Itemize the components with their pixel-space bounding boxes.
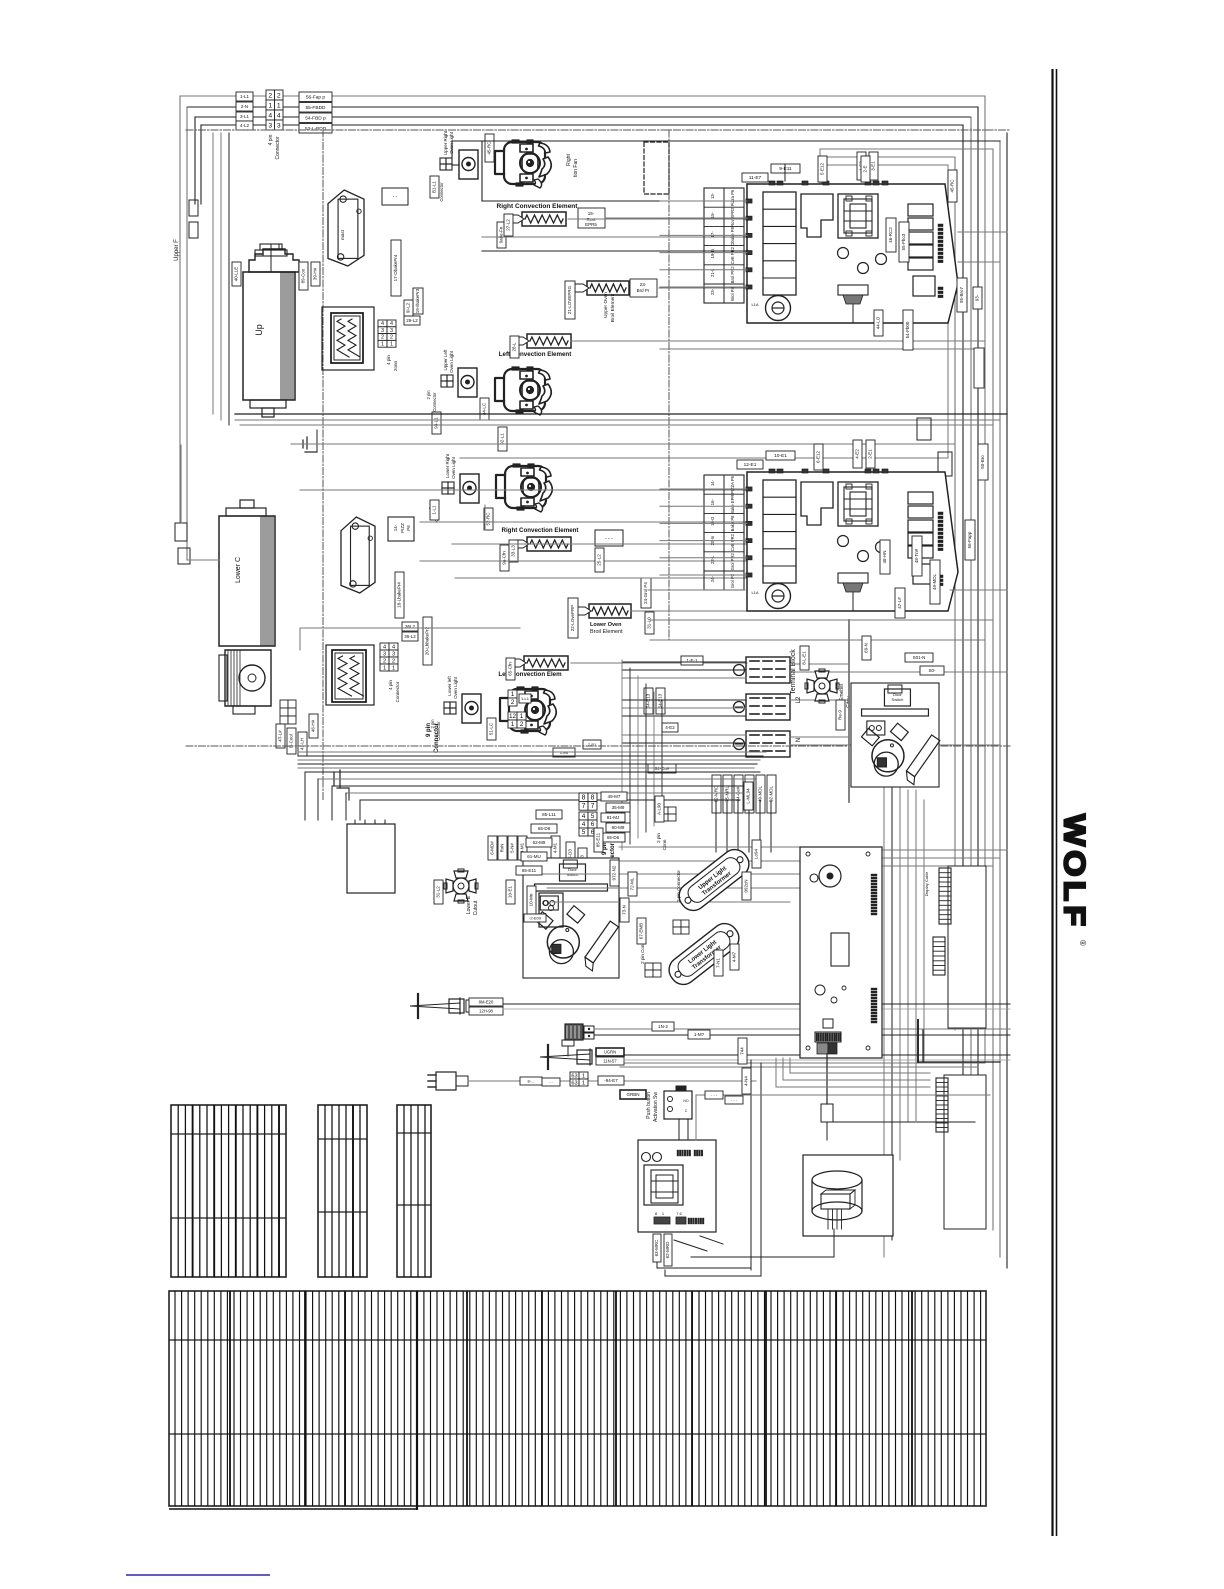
svg-text:A-L90: A-L90 (657, 803, 662, 816)
svg-text:Activation Sw: Activation Sw (653, 1092, 659, 1122)
svg-text:28-L: 28-L (512, 342, 517, 352)
svg-text:29-L2: 29-L2 (406, 318, 418, 323)
svg-text:2: 2 (381, 335, 384, 341)
svg-text:4-M7: 4-M7 (732, 951, 737, 962)
small dashed box (382, 188, 408, 205)
svg-text:072-N2: 072-N2 (612, 865, 617, 880)
svg-text:2 pin: 2 pin (426, 390, 431, 400)
svg-text:PIZZA P6: PIZZA P6 (730, 475, 735, 494)
svg-text:1-L1: 1-L1 (521, 696, 530, 701)
svg-text:Cutout: Cutout (473, 900, 479, 915)
svg-text:Connector: Connector (432, 392, 437, 412)
dash box top right (644, 142, 669, 194)
ground symbol A (306, 437, 308, 449)
svg-text:4-L2: 4-L2 (240, 123, 250, 128)
lower oven right fan (496, 464, 552, 512)
svg-text:2: 2 (268, 93, 272, 100)
svg-text:Connector: Connector (439, 182, 444, 202)
svg-text:65-D6: 65-D6 (607, 835, 620, 840)
blue underline bottom-left (126, 1574, 270, 1576)
oven probe lower (540, 1054, 590, 1060)
vertical bundle mid (621, 660, 623, 850)
svg-text:15-: 15- (710, 212, 715, 219)
svg-text:1: 1 (277, 103, 281, 110)
svg-text:67-EMB: 67-EMB (639, 923, 644, 939)
svg-text:7 6: 7 6 (676, 1211, 682, 1216)
svg-text:Switch: Switch (892, 697, 904, 702)
svg-text:3: 3 (392, 651, 395, 657)
svg-text:10-E1: 10-E1 (774, 453, 787, 459)
svg-text:35-M9: 35-M9 (612, 805, 625, 810)
svg-text:WOLF: WOLF (1058, 814, 1092, 930)
svg-text:46-RC2: 46-RC2 (888, 227, 893, 243)
svg-text:47-L#: 47-L# (897, 597, 902, 609)
svg-text:5: 5 (582, 829, 586, 836)
svg-text:4 pin: 4 pin (268, 134, 274, 145)
svg-text:46-H#: 46-H# (311, 719, 316, 732)
svg-text:CvE PR2: CvE PR2 (730, 533, 735, 551)
svg-text:Lower Right: Lower Right (445, 453, 450, 478)
svg-text:85-L11: 85-L11 (542, 812, 556, 817)
svg-text:Push button: Push button (646, 1092, 652, 1119)
svg-text:49-M7: 49-M7 (608, 794, 621, 799)
svg-text:3: 3 (381, 328, 384, 334)
svg-text:4 pin: 4 pin (386, 355, 391, 365)
board to bus wires (882, 849, 1007, 851)
svg-text:N: N (796, 738, 802, 742)
svg-text:2: 2 (383, 658, 386, 664)
svg-text:50-Bro: 50-Bro (980, 455, 985, 469)
wiring run table (bottom) (169, 1291, 986, 1506)
svg-text:6-D3: 6-D3 (568, 849, 573, 859)
svg-text:9 pin: 9 pin (426, 723, 432, 737)
svg-text:RvN: RvN (500, 844, 505, 853)
upper left oven light (458, 368, 477, 397)
wire color table 1 (171, 1105, 286, 1277)
svg-text:65-D8: 65-D8 (538, 826, 551, 831)
wire top bus (180, 95, 985, 97)
svg-text:4: 4 (381, 321, 384, 327)
svg-text:6-E12: 6-E12 (816, 451, 821, 464)
svg-text:4: 4 (383, 644, 386, 650)
J-box under board (826, 1054, 828, 1104)
svg-text:73-N: 73-N (622, 905, 627, 915)
wire color table 2 (318, 1105, 367, 1277)
svg-text:85-E11: 85-E11 (522, 868, 537, 873)
svg-text:Upper Right: Upper Right (443, 130, 448, 155)
svg-text:- - -: - - - (731, 1097, 738, 1102)
svg-text:1-L1: 1-L1 (240, 94, 250, 99)
svg-text:Lower C: Lower C (235, 557, 242, 583)
svg-text:63-MRC: 63-MRC (654, 1239, 659, 1257)
svg-text:6-MD#: 6-MD# (490, 841, 495, 855)
4 pin connector top (266, 90, 275, 100)
svg-text:63: 63 (571, 1073, 577, 1079)
terminal feed wires (622, 661, 746, 663)
upper thermostat plate (328, 190, 364, 266)
svg-text:69-N: 69-N (864, 643, 869, 653)
svg-text:2: 2 (392, 658, 395, 664)
svg-text:2onn: 2onn (393, 360, 398, 371)
svg-text:1: 1 (268, 103, 272, 110)
upper pcb top labels (771, 164, 800, 173)
upper bake element (322, 307, 374, 370)
lower pcb wires (660, 488, 747, 490)
lower light transformer (664, 918, 744, 989)
svg-text:Oven Light: Oven Light (451, 456, 456, 479)
svg-text:65-Cfn: 65-Cfn (508, 662, 513, 676)
svg-text:-2-E09: -2-E09 (529, 915, 542, 920)
ground upper-mid (333, 775, 335, 777)
svg-text:4T-L#: 4T-L# (278, 730, 283, 742)
svg-text:8M-E20: 8M-E20 (479, 999, 494, 1004)
svg-text:4: 4 (268, 113, 272, 120)
top feed labels (299, 92, 332, 102)
svg-text:8: 8 (582, 794, 586, 801)
svg-text:Connector: Connector (395, 681, 400, 702)
meat probe upper (410, 1003, 460, 1009)
svg-text:1: 1 (511, 691, 515, 698)
lower pcb top labels (766, 451, 795, 460)
svg-text:8-...: 8-... (528, 1078, 535, 1083)
svg-text:2-N: 2-N (241, 104, 248, 109)
svg-text:1: 1 (381, 342, 384, 348)
svg-text:1: 1 (582, 1073, 585, 1079)
svg-text:85-E11: 85-E11 (596, 832, 601, 847)
svg-text:7: 7 (591, 803, 595, 810)
svg-text:7-N1: 7-N1 (716, 958, 721, 968)
svg-text:Oven Light: Oven Light (449, 350, 454, 373)
lower motor pins (280, 700, 288, 708)
svg-text:4: 4 (277, 113, 281, 120)
cylinder box (803, 1155, 893, 1236)
terminal bottom labels (712, 775, 721, 813)
svg-text:16-: 16- (710, 499, 715, 506)
svg-text:- -: - - (393, 194, 398, 200)
stepped bundle (305, 771, 760, 773)
svg-text:20-LhbakePr2: 20-LhbakePr2 (425, 626, 430, 655)
upper oven right fan (495, 140, 551, 188)
svg-text:44-LO: 44-LO (876, 316, 881, 329)
svg-text:9a8e-Fn: 9a8e-Fn (499, 226, 504, 243)
display cable lower (944, 1075, 986, 1229)
svg-text:4: 4 (390, 321, 393, 327)
svg-text:Right Convection Element: Right Convection Element (501, 527, 578, 534)
svg-text:Brol P4: Brol P4 (730, 286, 735, 300)
svg-text:PIZZ: PIZZ (400, 523, 405, 533)
svg-text:Brol PR2: Brol PR2 (730, 266, 735, 283)
lower oven broil element (589, 604, 631, 618)
svg-text:48-HN: 48-HN (882, 550, 887, 563)
svg-text:12: 12 (509, 713, 517, 720)
svg-text:92-L1: 92-L1 (500, 433, 505, 445)
dash-dot rail horizontal (186, 129, 1010, 131)
svg-text:17-ObakePr4: 17-ObakePr4 (393, 254, 398, 281)
svg-text:Lo94: Lo94 (754, 848, 759, 859)
left convection element (lower) (524, 656, 568, 670)
svg-text:41-LH: 41-LH (300, 738, 305, 750)
svg-text:2: 2 (520, 721, 524, 728)
push button switch (664, 1091, 692, 1119)
svg-text:54-FBD p: 54-FBD p (305, 115, 326, 121)
misc connector boxes mid-right (917, 418, 931, 440)
svg-text:56-Fapp: 56-Fapp (967, 531, 972, 548)
small connectors left (189, 200, 198, 216)
svg-text:18-LbakePr4: 18-LbakePr4 (397, 582, 402, 608)
lower right oven light (460, 474, 479, 503)
svg-text:1: 1 (390, 342, 393, 348)
small relay near latch (539, 893, 563, 927)
svg-text:Connector: Connector (275, 136, 281, 159)
upper oven wires (452, 140, 1000, 142)
svg-text:3: 3 (277, 123, 281, 130)
svg-text:L1A: L1A (751, 590, 758, 595)
svg-text:8: 8 (591, 794, 595, 801)
inner left risers (212, 133, 214, 414)
svg-text:- -: - - (549, 1079, 553, 1084)
svg-text:Brd Pr: Brd Pr (637, 288, 650, 293)
svg-text:4-E2: 4-E2 (855, 449, 860, 459)
svg-text:092cN: 092cN (744, 879, 749, 892)
svg-text:Display Cable: Display Cable (924, 871, 929, 896)
svg-text:NO: NO (683, 1099, 689, 1103)
svg-text:27-L2: 27-L2 (506, 219, 511, 231)
svg-text:Broil Element: Broil Element (590, 629, 623, 635)
svg-text:93-: 93- (975, 294, 980, 301)
upper bimetal cutout (805, 669, 839, 703)
svg-text:Grol PR2: Grol PR2 (730, 553, 735, 571)
9 pin connector (mid) (579, 793, 588, 802)
svg-text:93-L1: 93-L1 (434, 417, 439, 429)
svg-text:- - -: - - - (711, 1092, 718, 1097)
svg-text:1-L1: 1-L1 (432, 505, 437, 515)
svg-text:Right: Right (566, 154, 572, 166)
svg-text:49-MDL: 49-MDL (932, 574, 937, 591)
svg-text:Upper Oven: Upper Oven (603, 292, 609, 318)
upper oven left fan (495, 367, 551, 415)
svg-text:Lower left: Lower left (447, 675, 452, 695)
mid-page connection wires to board (619, 846, 800, 848)
upper relay board (746, 181, 958, 323)
svg-text:44-LC: 44-LC (482, 402, 487, 415)
svg-text:14-: 14- (710, 479, 715, 486)
svg-text:7: 7 (582, 803, 586, 810)
upper latch assembly (848, 620, 850, 802)
svg-text:2-E: 2-E (863, 165, 868, 172)
svg-text:45-RC: 45-RC (487, 141, 492, 155)
svg-text:18-O: 18-O (710, 516, 715, 526)
board right pin strips (871, 874, 877, 876)
terminal labels (681, 656, 703, 665)
svg-text:GRBN: GRBN (626, 1092, 639, 1097)
svg-text:Re-9: Re-9 (838, 710, 843, 720)
svg-text:61-MU: 61-MU (527, 854, 541, 859)
dash-dot rail vertical (322, 130, 324, 800)
svg-text:Oven Light: Oven Light (453, 676, 458, 699)
upper light transformer (674, 844, 754, 915)
svg-text:12-E1: 12-E1 (744, 462, 757, 468)
svg-text:4: 4 (582, 813, 586, 820)
svg-text:1: 1 (511, 721, 515, 728)
diagonal wire marks (674, 1240, 707, 1251)
svg-text:1-M?: 1-M? (694, 1032, 705, 1037)
svg-text:2: 2 (390, 335, 393, 341)
svg-text:3: 3 (390, 328, 393, 334)
svg-text:11-E7: 11-E7 (749, 175, 762, 181)
svg-text:24-: 24- (710, 575, 715, 582)
bottom interconnect wires (750, 1060, 752, 1270)
svg-text:45-RC: 45-RC (950, 179, 955, 193)
svg-text:L1A: L1A (751, 302, 758, 307)
svg-text:40-LLE: 40-LLE (234, 267, 239, 282)
svg-text:9-E11: 9-E11 (779, 166, 792, 172)
svg-text:3: 3 (383, 651, 386, 657)
terminal drop wires (715, 800, 717, 852)
lower oven wires (452, 543, 747, 545)
svg-text:1: 1 (520, 713, 524, 720)
svg-text:13-: 13- (710, 192, 715, 199)
svg-text:62-M9: 62-M9 (533, 840, 546, 845)
svg-text:Obake P8: Obake P8 (730, 226, 735, 245)
svg-text:Lower Oven: Lower Oven (590, 622, 622, 628)
svg-text:Upper Left: Upper Left (443, 349, 448, 371)
svg-text:L-ML94: L-ML94 (746, 788, 751, 804)
svg-text:95-Bro7: 95-Bro7 (959, 287, 964, 304)
labels near Up (232, 262, 241, 286)
svg-text:12H-98: 12H-98 (479, 1008, 493, 1013)
svg-text:1: 1 (383, 665, 386, 671)
svg-text:3: 3 (268, 123, 272, 130)
14-PIZZ label (388, 517, 414, 541)
wire label tags above board (515, 865, 517, 867)
svg-text:CvE PR2: CvE PR2 (730, 246, 735, 264)
mid label row (488, 836, 497, 860)
svg-text:2 pin Connector: 2 pin Connector (676, 870, 681, 902)
svg-text:Up: Up (254, 324, 264, 336)
svg-text:Connector: Connector (434, 722, 440, 753)
lower pcb pin table (704, 475, 744, 590)
svg-text:®: ® (1078, 940, 1087, 946)
svg-text:4-E2: 4-E2 (665, 725, 675, 730)
svg-text:72-ML: 72-ML (630, 877, 635, 890)
svg-text:2: 2 (511, 699, 515, 706)
svg-text:22-LOvePRP: 22-LOvePRP (570, 605, 575, 632)
svg-text:Right Convection Element: Right Convection Element (497, 203, 579, 210)
svg-text:Bake EPR: Bake EPR (730, 495, 735, 514)
svg-text:9I-L2: 9I-L2 (406, 302, 411, 313)
svg-text:9a-Cfn: 9a-Cfn (502, 551, 507, 565)
board pin header dark (816, 1033, 817, 1041)
4 pin grid lower (380, 643, 389, 650)
svg-text:6: 6 (591, 821, 595, 828)
lower transformer (219, 516, 275, 646)
right-of-board labels upper (861, 156, 870, 182)
harness bundle horizontal (298, 751, 766, 753)
svg-text:51-LC: 51-LC (489, 722, 494, 735)
junction white rect (347, 824, 395, 893)
svg-text:2-E1: 2-E1 (868, 449, 873, 459)
svg-text:mast: mast (340, 229, 345, 240)
svg-text:23-: 23- (640, 282, 647, 287)
board labels (620, 898, 629, 922)
svg-text:P6: P6 (406, 525, 411, 531)
left convection element (upper) (527, 334, 571, 348)
upper transformer Up (243, 272, 295, 400)
svg-text:4 pin: 4 pin (388, 680, 393, 690)
svg-text:S01-N: S01-N (913, 655, 926, 660)
svg-text:1N-2: 1N-2 (658, 1024, 668, 1029)
lower thermostat plate (341, 517, 375, 593)
svg-text:52-RC: 52-RC (486, 512, 491, 526)
lower convection motor (225, 650, 271, 706)
4 pin grid upper (378, 320, 387, 327)
svg-text:48-Tn#: 48-Tn# (914, 548, 919, 563)
thermistor pair (565, 1024, 583, 1040)
WOLF logo (1058, 814, 1092, 946)
svg-text:10-E1: 10-E1 (508, 886, 513, 899)
svg-text:17-: 17- (710, 231, 715, 238)
svg-text:23-: 23- (710, 288, 715, 295)
terminal block (734, 665, 745, 676)
svg-text:22-L: 22-L (710, 555, 715, 564)
svg-text:B1-L1: B1-L1 (432, 181, 437, 194)
svg-text:5-E12: 5-E12 (820, 163, 825, 176)
lower latch assembly (523, 858, 622, 978)
door lock assembly (638, 1140, 716, 1232)
svg-text:62-MRD: 62-MRD (665, 1241, 670, 1259)
svg-text:4: 4 (392, 644, 395, 650)
svg-text:744: 744 (740, 1047, 745, 1055)
right riser bus (984, 96, 986, 1063)
svg-text:81-MJ: 81-MJ (607, 815, 620, 820)
svg-text:EPR5: EPR5 (585, 222, 597, 227)
svg-text:Lower E: Lower E (466, 895, 472, 914)
lower bimetal cutout (444, 869, 478, 903)
svg-text:19-In: 19-In (710, 248, 715, 258)
svg-text:Upper F: Upper F (174, 239, 180, 261)
upper right oven light (459, 150, 478, 179)
labels 29-L2 19-IntakePr3 (404, 316, 420, 325)
svg-text:1: 1 (392, 665, 395, 671)
labels near lower transformer (395, 572, 404, 618)
left riser wires (179, 96, 181, 523)
upper pcb wires (660, 200, 747, 202)
svg-text:- - -: - - - (605, 536, 613, 542)
svg-text:60-M9: 60-M9 (612, 825, 625, 830)
svg-text:3-M1: 3-M1 (520, 842, 525, 853)
svg-text:-94-E7: -94-E7 (604, 1078, 618, 1083)
top wire labels (236, 92, 253, 101)
svg-text:Broil Element: Broil Element (610, 293, 616, 322)
svg-text:55-Fbo3: 55-Fbo3 (901, 233, 906, 250)
svg-text:25-L2: 25-L2 (597, 554, 602, 566)
svg-text:24-Grol P4: 24-Grol P4 (643, 582, 648, 604)
svg-text:4-N4: 4-N4 (744, 1076, 749, 1086)
upper convection motor (249, 249, 299, 272)
svg-text:Conn: Conn (662, 839, 667, 850)
svg-text:15-: 15- (588, 211, 595, 216)
svg-text:31-L2: 31-L2 (436, 886, 441, 898)
lower oven left fan (500, 687, 556, 735)
svg-text:39-H#: 39-H# (313, 267, 318, 280)
svg-text:UGRN: UGRN (604, 1049, 616, 1054)
upper pcb pin table (704, 188, 744, 303)
svg-text:1: 1 (582, 1080, 585, 1086)
upper oven broil element (587, 281, 629, 295)
svg-text:19-IbakePr3: 19-IbakePr3 (415, 288, 420, 313)
svg-text:4-M1: 4-M1 (553, 842, 558, 853)
svg-text:11N-57: 11N-57 (603, 1058, 617, 1063)
